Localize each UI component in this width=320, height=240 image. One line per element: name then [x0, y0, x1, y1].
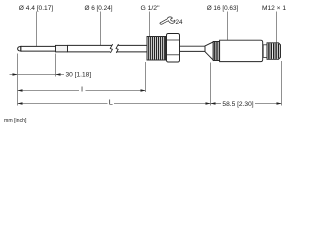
tip cap joint line — [20, 46, 22, 51]
arrow 58.5 left — [211, 102, 216, 105]
svg-text:mm [inch]: mm [inch] — [4, 118, 27, 124]
svg-text:30 [1.18]: 30 [1.18] — [66, 72, 92, 79]
svg-text:L: L — [109, 98, 113, 107]
leader line D6 — [100, 12, 102, 46]
arrow 30 right — [56, 73, 61, 76]
arrow 30 left — [13, 73, 18, 76]
break mark left — [110, 44, 113, 53]
extension line at housing start x210 — [210, 63, 212, 106]
svg-text:I: I — [81, 84, 83, 93]
svg-text:24: 24 — [176, 19, 184, 26]
transition collar — [56, 45, 68, 52]
svg-text:58.5 [2.30]: 58.5 [2.30] — [222, 101, 253, 108]
svg-text:G 1/2": G 1/2" — [140, 5, 160, 12]
thread G1/2 — [147, 37, 166, 61]
extension line at probe tip x18 — [17, 54, 19, 106]
leader line M12 — [276, 12, 278, 43]
leader line D16 — [227, 12, 229, 41]
hex nut SW24 — [167, 34, 180, 63]
svg-text:Ø 6 [0.24]: Ø 6 [0.24] — [84, 5, 112, 12]
shaft between hex and housing — [180, 46, 206, 51]
tube D6 left segment — [68, 45, 113, 52]
thin tube D4.4 — [21, 46, 56, 51]
tube D6 right segment — [116, 45, 147, 52]
svg-text:Ø 16 [0.63]: Ø 16 [0.63] — [207, 5, 239, 12]
svg-text:M12 × 1: M12 × 1 — [262, 5, 286, 12]
arrow I right — [141, 89, 146, 92]
dimension 58.5 line — [211, 103, 282, 105]
leader line D4.4 — [36, 12, 38, 47]
probe tip — [18, 46, 21, 51]
extension line at 30mm x55 — [55, 54, 57, 77]
arrow L left — [18, 102, 23, 105]
wrench icon SW24 — [160, 17, 175, 24]
housing body D16 — [220, 40, 263, 61]
dimension L line — [18, 103, 211, 105]
connector neck — [263, 45, 267, 58]
arrow L right — [206, 102, 211, 105]
leader line G1/2 — [149, 12, 151, 37]
arrow I left — [18, 89, 23, 92]
break mark right — [116, 44, 119, 53]
arrow 58.5 right — [277, 102, 282, 105]
housing collar rings — [213, 42, 219, 61]
extension line at thread start x145 — [145, 62, 147, 92]
dimension I line — [18, 90, 146, 92]
dimension 30mm line — [10, 74, 65, 76]
housing cone — [205, 42, 213, 60]
connector thread M12 — [267, 43, 281, 60]
svg-text:Ø 4.4 [0.17]: Ø 4.4 [0.17] — [19, 5, 54, 12]
extension line at connector end x281 — [281, 61, 283, 106]
